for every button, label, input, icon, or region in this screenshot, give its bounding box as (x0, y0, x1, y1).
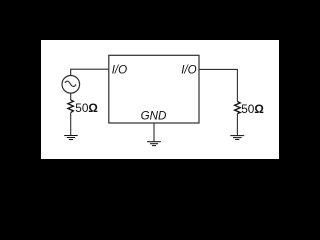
svg-text:I/O: I/O (181, 63, 197, 77)
svg-text:I/O: I/O (112, 63, 128, 77)
svg-text:GND: GND (141, 109, 167, 123)
svg-text:50Ω: 50Ω (75, 101, 98, 115)
svg-text:50Ω: 50Ω (241, 102, 264, 116)
